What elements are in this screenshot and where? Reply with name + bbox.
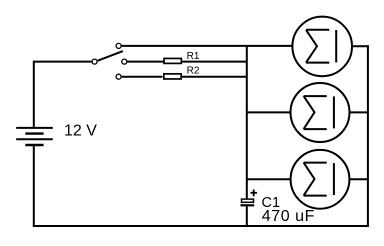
wire pole feed — [34, 61, 92, 63]
lamp U3 circle — [291, 150, 350, 209]
wire R2 left — [122, 76, 163, 78]
switch SW1 contact 3 — [116, 74, 121, 79]
wire bottom — [33, 225, 369, 227]
wire R1 left — [127, 61, 163, 63]
wire lamp 1 right — [352, 45, 369, 47]
switch SW1 pole contact — [92, 59, 97, 64]
wire left bus upper — [33, 61, 35, 127]
lamp U2 sigma symbol — [304, 96, 334, 129]
lamp U2 circle — [291, 83, 350, 142]
resistor R2 — [164, 74, 181, 79]
lamp U1 circle — [292, 17, 352, 77]
wire right bus — [367, 45, 369, 226]
wire R1 right — [182, 61, 247, 63]
battery 12 V — [16, 128, 53, 145]
wire R2 right — [182, 76, 247, 78]
capacitor C1 bottom plate — [241, 204, 255, 206]
lamp U3 sigma symbol — [304, 163, 334, 196]
wire top (switch to lamp 1) — [122, 45, 292, 47]
switch SW1 lever — [98, 51, 123, 61]
wire left bus lower — [33, 146, 35, 226]
switch SW1 contact 1 — [116, 43, 121, 48]
svg-text:12 V: 12 V — [64, 123, 97, 140]
wire lamp 3 left — [247, 178, 291, 180]
capacitor C1 plus sign — [251, 190, 258, 197]
resistor R1 — [164, 58, 181, 63]
wire lamp 2 left — [247, 111, 291, 113]
switch SW1 contact 2 — [122, 59, 127, 64]
wire lamp 2 right — [350, 111, 368, 113]
svg-text:R1: R1 — [187, 51, 200, 62]
wire lamp 3 right — [349, 178, 368, 180]
wire below capacitor — [246, 206, 248, 226]
svg-text:470 uF: 470 uF — [262, 208, 315, 225]
svg-text:R2: R2 — [187, 66, 200, 77]
lamp U1 sigma symbol — [306, 30, 336, 63]
wire middle bus — [246, 46, 248, 199]
capacitor C1 top plate — [242, 199, 254, 202]
